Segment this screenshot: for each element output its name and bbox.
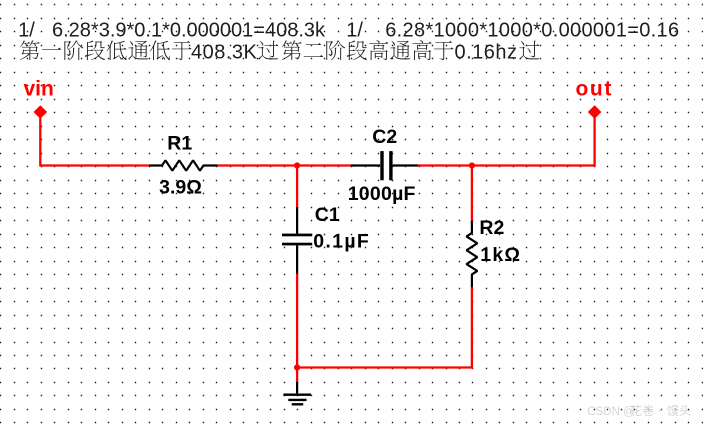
wire R1 to junction A: [217, 164, 297, 166]
annotation formula line 1: [18, 20, 679, 42]
capacitor C2: [351, 151, 419, 180]
junction B: [469, 162, 475, 168]
annotation text line 2: [20, 40, 539, 63]
svg-text:3.9Ω: 3.9Ω: [159, 176, 202, 198]
svg-text:R1: R1: [167, 133, 192, 155]
svg-text:R2: R2: [479, 217, 504, 239]
svg-text:1000µF: 1000µF: [348, 183, 416, 205]
wire junction A down to C1: [296, 164, 298, 207]
svg-text:out: out: [576, 77, 613, 100]
svg-text:1/: 1/: [346, 20, 363, 42]
wire junction A to C2: [297, 164, 351, 166]
wire C1 to junction C: [296, 274, 298, 368]
svg-text:C2: C2: [372, 126, 397, 148]
junction A: [294, 162, 300, 168]
svg-text:1/: 1/: [18, 20, 35, 42]
svg-text:408.3K: 408.3K: [191, 42, 258, 64]
wire R2 to bottom wire: [297, 287, 472, 367]
svg-text:C1: C1: [315, 204, 340, 226]
wire vin to R1: [40, 118, 149, 166]
svg-text:1kΩ: 1kΩ: [480, 244, 521, 266]
watermark: [587, 405, 690, 418]
svg-text:0.1µF: 0.1µF: [313, 230, 370, 252]
svg-text:0.16hz: 0.16hz: [455, 42, 518, 64]
ground: [283, 382, 311, 405]
node vin: [24, 77, 54, 119]
wire junction B down to R2: [471, 164, 473, 221]
wire junction B to out: [472, 118, 595, 166]
node out: [576, 77, 613, 119]
svg-text:6.28*3.9*0.1*0.000001=408.3k: 6.28*3.9*0.1*0.000001=408.3k: [52, 20, 326, 42]
capacitor C1: [282, 207, 312, 274]
svg-text:vin: vin: [24, 77, 54, 100]
svg-text:6.28*1000*1000*0.000001=0.16: 6.28*1000*1000*0.000001=0.16: [385, 20, 679, 42]
resistor R1: [149, 160, 217, 170]
wire C2 to junction B: [418, 164, 472, 166]
wire junction C to ground: [296, 368, 298, 382]
resistor R2: [467, 221, 478, 288]
svg-text:CSDN @: CSDN @: [587, 406, 634, 418]
junction C: [294, 364, 300, 370]
